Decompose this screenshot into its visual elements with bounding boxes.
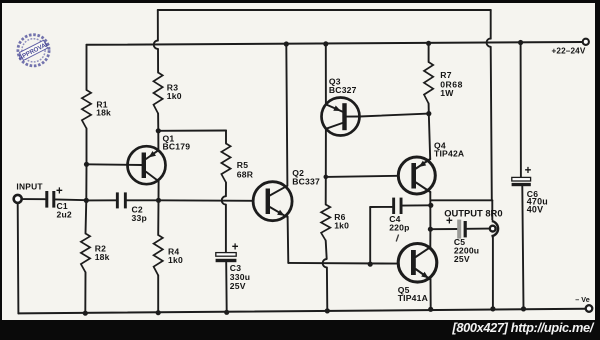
approval stamp (16, 35, 50, 66)
svg-text:– Ve: – Ve (575, 295, 589, 304)
hop R3 over +V rail (154, 41, 158, 49)
resistor R3 (154, 73, 182, 114)
svg-text:18k: 18k (95, 252, 110, 262)
node C3 ground (224, 310, 229, 315)
node R7 bottom (426, 111, 431, 116)
wire C5 to jack (467, 228, 489, 230)
wire bottom -Ve rail (18, 309, 586, 314)
wire C3 to rail (225, 262, 228, 312)
node Q1 base tee (84, 162, 89, 167)
wire C4 left (370, 206, 392, 208)
wire input to C1 (23, 198, 45, 200)
wire Q3 collector down (325, 129, 327, 177)
node R4 ground (156, 310, 161, 315)
Q2 base bar (266, 189, 270, 215)
wire C4 right (403, 204, 431, 206)
wire +V supply rail (87, 42, 583, 45)
svg-text:BC327: BC327 (329, 85, 357, 95)
wire node to R5 (158, 130, 226, 132)
node input junction (84, 198, 89, 203)
resistor R6 (321, 205, 349, 241)
transistor Q4 circle (398, 157, 435, 194)
svg-text:33p: 33p (132, 213, 147, 223)
input terminal (14, 195, 22, 203)
wire Q1 emitter up (157, 131, 159, 151)
node Q1 collector (156, 198, 161, 203)
label +22-24V (551, 47, 585, 56)
wire Q3 base to R7 node (360, 114, 429, 117)
svg-text:25V: 25V (454, 254, 470, 264)
node R2 ground (83, 311, 88, 316)
svg-text:R7: R7 (440, 70, 451, 80)
svg-text:TIP42A: TIP42A (434, 149, 464, 159)
wire Q5 collector up (429, 229, 431, 247)
wire Q1 base (87, 163, 143, 166)
wire R1 top (86, 45, 88, 90)
node jack ground (490, 306, 495, 311)
resistor R2 (81, 234, 110, 273)
wire output node to jack top (431, 199, 493, 201)
wire node to C2 (86, 199, 116, 201)
capacitor C5 (446, 216, 479, 264)
capacitor C1 (45, 185, 72, 219)
wire input ground drop (17, 204, 20, 313)
wire R4 to rail (157, 275, 159, 312)
hop feedback over +V rail (487, 38, 491, 46)
wire R2 to rail (84, 272, 86, 313)
wire R1 to base node (86, 129, 88, 165)
svg-text:2u2: 2u2 (57, 210, 72, 220)
capacitor C2 (116, 192, 147, 223)
node R6 ground (325, 308, 330, 313)
Q3 base bar (342, 103, 346, 130)
wire Q2 emitter to Q5 base (288, 262, 398, 265)
wire R7 to node (428, 104, 430, 114)
wire jack sleeve top (491, 200, 493, 219)
label -Ve (575, 295, 589, 304)
node C4 output junction (428, 203, 433, 208)
svg-text:+: + (446, 216, 453, 228)
hop R6 over emitter run (323, 259, 327, 267)
watermark credit bar (452, 320, 593, 335)
Q4 base bar (411, 163, 416, 189)
Q1 emitter lead (146, 150, 159, 159)
svg-text:+: + (56, 185, 63, 197)
wire hop to C3 (225, 205, 227, 253)
wire top feedback rail (158, 9, 491, 11)
node C4 drop junction (368, 262, 373, 267)
svg-text:BC179: BC179 (163, 142, 191, 152)
resistor R1 (82, 90, 111, 129)
wire R3 to node (157, 114, 159, 131)
Q3 base lead (347, 116, 360, 118)
Q2 emitter lead (270, 207, 286, 217)
label Q3 (329, 76, 357, 95)
node Q2 collector rail (284, 41, 289, 46)
Q5 base bar (411, 250, 416, 275)
wire C4 drop (369, 207, 371, 264)
svg-text:1W: 1W (440, 88, 454, 98)
Q3 emitter lead (326, 104, 343, 111)
wire Q5 emitter down (430, 279, 432, 310)
wire Q3 emitter up (325, 44, 327, 105)
wire C6 top (520, 43, 522, 178)
wire Q2 base (159, 199, 254, 202)
node Q3 emitter rail (323, 41, 328, 46)
wire C1 to node (56, 198, 87, 201)
wire to R3 (157, 49, 159, 73)
wire Q1 collector down (158, 181, 160, 200)
svg-text:1k0: 1k0 (168, 255, 183, 265)
transistor Q2 circle (253, 182, 292, 221)
svg-text:OUTPUT 8R0: OUTPUT 8R0 (444, 207, 502, 218)
resistor R4 (154, 235, 183, 275)
svg-text:INPUT: INPUT (16, 182, 43, 192)
node Q3 collector (324, 175, 329, 180)
node Q5 emitter ground (428, 307, 433, 312)
wire feedback drop (491, 47, 492, 201)
label Q2 (292, 168, 320, 186)
wire Q2 emitter down (287, 216, 290, 263)
svg-text:+: + (525, 165, 532, 177)
hop R5-C3 over base wire (222, 196, 226, 204)
node output C5 (428, 227, 433, 232)
svg-text:+: + (232, 241, 239, 253)
wire C6 to rail (522, 186, 523, 309)
capacitor C4 (389, 198, 409, 242)
wire to R2 (85, 200, 88, 233)
output jack (490, 221, 498, 236)
Q1 collector lead (146, 172, 159, 181)
svg-text:TIP41A: TIP41A (398, 293, 428, 303)
Q4 emitter lead (416, 159, 430, 169)
wire R6 to hop (326, 241, 327, 260)
transistor Q5 circle (398, 243, 437, 282)
wire R5 to hop (225, 183, 227, 197)
-Ve terminal (586, 305, 593, 312)
label OUTPUT 8R0 (444, 207, 502, 218)
label INPUT (16, 182, 43, 192)
wire to C5 (430, 228, 456, 230)
svg-text:18k: 18k (96, 107, 111, 117)
svg-text:+22–24V: +22–24V (551, 47, 585, 56)
capacitor C6 (512, 165, 548, 215)
transistor Q3 circle (322, 98, 360, 136)
svg-text:40V: 40V (527, 205, 543, 215)
svg-text:1k0: 1k0 (167, 91, 182, 101)
Q2 collector lead (270, 186, 287, 196)
wire Q2 collector up (286, 44, 287, 186)
label Q1 (163, 133, 191, 151)
Q4 collector lead (416, 183, 430, 193)
node R7 top (426, 41, 431, 46)
label Q5 (398, 285, 428, 303)
wire Q4 emitter up (429, 114, 430, 160)
wire R5 drop (225, 131, 227, 144)
wire base node down (85, 164, 87, 200)
wire top rect left drop (157, 10, 159, 41)
label Q4 (434, 140, 464, 158)
wire top rect right drop (490, 10, 492, 39)
wire to R4 (157, 200, 159, 235)
wire Q4 collector down (429, 192, 431, 229)
wire R6 hop to rail (326, 267, 328, 311)
transistor Q1 circle (128, 146, 166, 184)
svg-text:68R: 68R (237, 170, 254, 180)
Q5 collector lead (416, 247, 431, 257)
wire jack sleeve bottom (492, 237, 494, 309)
wire Q4 base (326, 176, 399, 177)
Q3 collector lead (326, 123, 343, 129)
svg-text:1k0: 1k0 (334, 220, 349, 230)
svg-text:220p: 220p (389, 223, 409, 233)
node C6 top (518, 40, 523, 45)
resistor R5 (221, 144, 253, 183)
svg-text:25V: 25V (230, 281, 246, 291)
capacitor C3 (216, 241, 251, 291)
node C6 ground (521, 306, 526, 311)
+V terminal (583, 39, 589, 45)
Q1 base bar (142, 153, 146, 179)
wire to R6 (325, 177, 327, 205)
Q5 emitter lead (416, 269, 430, 279)
wire C2 to Q2 base run (127, 199, 158, 201)
svg-text:BC337: BC337 (292, 176, 320, 186)
resistor R7 (424, 62, 463, 104)
node Q1 emitter (156, 128, 161, 133)
wire R7 top (428, 43, 430, 62)
